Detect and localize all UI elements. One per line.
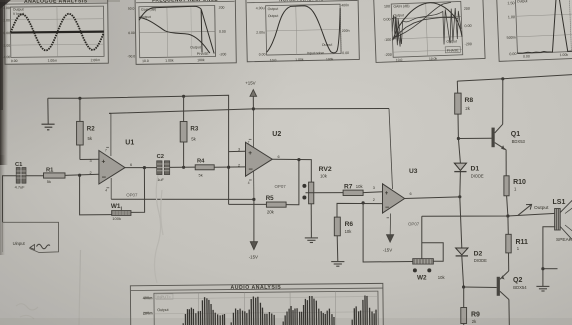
node U1 inverting input junction — [78, 174, 81, 177]
svg-text:0.00: 0.00 — [383, 17, 390, 21]
svg-text:Input noise: Input noise — [307, 51, 324, 55]
svg-text:10.0: 10.0 — [142, 59, 149, 63]
svg-text:Q1: Q1 — [511, 131, 520, 138]
wire C1 to R1 — [26, 175, 44, 177]
svg-text:C1: C1 — [15, 162, 23, 168]
svg-text:10k: 10k — [356, 184, 364, 189]
potentiometer W2 — [413, 259, 446, 282]
svg-text:100k: 100k — [326, 57, 334, 61]
wire U3 pin2 node — [337, 203, 383, 217]
plot ANALOGUE ANALYSIS (scope) — [2, 0, 108, 64]
svg-text:R3: R3 — [190, 126, 198, 133]
node Q1 base junction — [457, 137, 460, 140]
resistor R3 — [180, 96, 199, 167]
node U1 output junction — [143, 166, 146, 169]
svg-text:3: 3 — [90, 159, 92, 163]
svg-text:−: − — [385, 205, 389, 212]
node feedback junction at U2 pin2 — [227, 166, 230, 169]
node Q2 base junction — [462, 285, 465, 288]
svg-text:-15V: -15V — [383, 247, 392, 252]
wire -15V rail U1 U2 — [111, 198, 254, 200]
resistor R8 — [455, 81, 474, 138]
wire C2 to R4 with R3 node — [170, 166, 196, 168]
node U2 output junction — [297, 158, 300, 161]
wire W2 wiper loop — [422, 216, 443, 261]
svg-text:10.0: 10.0 — [396, 58, 403, 62]
svg-text:10k: 10k — [438, 275, 446, 280]
wire R7 to U3 pin3 — [363, 191, 382, 194]
svg-text:1.00k: 1.00k — [559, 53, 568, 57]
svg-text:+: + — [248, 150, 252, 157]
svg-text:0.00: 0.00 — [219, 30, 226, 34]
op-amp U3 — [373, 168, 420, 235]
svg-text:U3: U3 — [409, 168, 418, 175]
plot GAIN/PHASE — [374, 0, 485, 63]
wire top right rail — [457, 75, 572, 82]
svg-text:2.00u: 2.00u — [256, 30, 265, 34]
svg-text:R9: R9 — [471, 311, 480, 318]
wire R5 right to U2 output node — [286, 160, 299, 205]
svg-text:R2: R2 — [87, 126, 95, 133]
svg-text:0.00: 0.00 — [11, 59, 18, 63]
svg-text:1.00: 1.00 — [508, 15, 515, 19]
svg-text:PHASE: PHASE — [197, 52, 210, 56]
svg-text:5k: 5k — [47, 179, 51, 184]
plot FFT spectrum — [497, 0, 572, 61]
svg-text:5k: 5k — [199, 172, 203, 177]
bottom vignette — [0, 318, 572, 325]
svg-text:4.00u: 4.00u — [256, 6, 265, 10]
capacitor C2 — [157, 154, 170, 182]
svg-text:200: 200 — [219, 6, 225, 10]
node R3 top junction — [182, 95, 185, 98]
resistor R6 — [334, 217, 353, 262]
wire C1 left to source — [3, 176, 17, 223]
potentiometer RV2 — [302, 166, 332, 204]
power -15V arrow U2 — [249, 199, 258, 259]
wire RV2 bottom to ground — [310, 204, 312, 238]
svg-text:2: 2 — [238, 163, 240, 167]
svg-text:500m: 500m — [507, 36, 516, 40]
transistor Q1 — [458, 79, 525, 176]
svg-text:200: 200 — [464, 7, 470, 11]
wire R1 to U1 pin2 — [65, 174, 99, 175]
faint scribbles bottom left — [16, 304, 38, 319]
svg-text:C2: C2 — [157, 154, 164, 160]
svg-text:BDX53: BDX53 — [512, 139, 526, 144]
svg-text:10.0k: 10.0k — [429, 57, 438, 61]
svg-text:3: 3 — [373, 186, 375, 190]
svg-text:Output: Output — [517, 0, 528, 3]
svg-text:6: 6 — [278, 155, 280, 159]
ground under R6 — [331, 262, 344, 267]
wire +15V feed rail — [109, 109, 393, 190]
svg-text:W2: W2 — [417, 274, 427, 281]
diode D1 — [454, 163, 484, 179]
svg-text:4: 4 — [248, 181, 250, 185]
svg-text:W1: W1 — [111, 203, 121, 210]
faint crease bottom left — [79, 250, 81, 325]
top edge slight dark — [0, 0, 120, 2]
svg-text:R4: R4 — [197, 158, 205, 164]
resistor R1 — [44, 168, 66, 184]
svg-text:R8: R8 — [465, 97, 474, 104]
diode D2 — [456, 248, 488, 263]
svg-text:6: 6 — [130, 163, 132, 167]
svg-text:OP07: OP07 — [408, 221, 420, 226]
svg-text:-200: -200 — [219, 52, 226, 56]
svg-text:U1: U1 — [125, 139, 134, 146]
svg-text:100: 100 — [384, 4, 390, 8]
svg-text:4.7uF: 4.7uF — [15, 185, 26, 190]
svg-text:4: 4 — [105, 189, 107, 193]
svg-text:+15V: +15V — [245, 81, 255, 86]
wire U1 output to C2 — [125, 167, 157, 169]
svg-text:RV2: RV2 — [319, 166, 332, 173]
svg-text:400m: 400m — [143, 296, 153, 300]
svg-text:PHASE: PHASE — [447, 48, 460, 52]
svg-text:+: + — [102, 158, 106, 165]
svg-text:1uF: 1uF — [157, 177, 164, 182]
svg-text:1.00k: 1.00k — [165, 59, 174, 63]
svg-text:10.0: 10.0 — [270, 58, 277, 62]
svg-text:AUDIO ANALYSIS: AUDIO ANALYSIS — [230, 284, 281, 290]
wire ground rail top — [48, 95, 229, 204]
op-amp U2 — [238, 109, 286, 199]
svg-text:100k: 100k — [197, 58, 205, 62]
svg-text:Output: Output — [393, 13, 404, 17]
svg-text:7: 7 — [105, 148, 107, 152]
wire RV2 wiper to R7 — [306, 192, 344, 194]
svg-text:R1: R1 — [46, 168, 54, 174]
wire D1 D2 chain vertical — [458, 139, 463, 288]
svg-text:-15V: -15V — [249, 255, 258, 260]
voltage source Uinput box — [3, 222, 59, 252]
node R2 top junction — [78, 97, 81, 100]
capacitor C1 — [15, 162, 26, 190]
resistor R2 — [77, 98, 96, 159]
node -15V junction U2 — [252, 198, 255, 201]
svg-text:0.00: 0.00 — [464, 24, 471, 28]
svg-text:-100: -100 — [384, 38, 392, 42]
svg-text:200m: 200m — [143, 311, 153, 315]
svg-text:Output: Output — [534, 205, 549, 211]
svg-text:−: − — [249, 165, 254, 174]
node U3 pin2 junction — [362, 201, 365, 204]
svg-text:R5: R5 — [266, 195, 274, 202]
svg-text:Output: Output — [446, 39, 457, 43]
svg-text:OP07: OP07 — [126, 193, 138, 198]
svg-text:Q2: Q2 — [513, 277, 522, 284]
plot NOISE ANALYSIS — [246, 0, 359, 63]
svg-text:0.00: 0.00 — [259, 52, 266, 56]
node +15V junction — [252, 107, 255, 110]
wire U3 output — [405, 197, 460, 199]
svg-text:Output: Output — [190, 45, 201, 49]
svg-text:R11: R11 — [516, 239, 529, 246]
wire U2 output to RV2 — [272, 159, 311, 182]
svg-text:6: 6 — [410, 192, 412, 196]
wire speaker to ground — [543, 227, 558, 287]
resistor R10 — [504, 176, 526, 216]
svg-text:-200: -200 — [384, 53, 392, 57]
ground under RV2 — [305, 238, 318, 243]
svg-text:Output: Output — [157, 308, 169, 312]
potentiometer W1 — [111, 203, 131, 221]
wire R2 to U1 pin3 — [80, 158, 99, 160]
svg-text:D1: D1 — [471, 165, 480, 172]
svg-text:BDX54: BDX54 — [513, 285, 527, 290]
photo left edge shadow — [0, 0, 8, 165]
svg-text:3: 3 — [238, 148, 240, 152]
svg-text:+: + — [385, 191, 389, 197]
svg-text:Uinput: Uinput — [13, 241, 26, 246]
power +15V arrow — [245, 81, 256, 109]
output probe arrow — [518, 204, 549, 215]
svg-text:2: 2 — [373, 198, 375, 202]
svg-text:200n: 200n — [342, 29, 350, 33]
wire output node line — [422, 213, 555, 216]
speaker LS1 — [553, 199, 572, 243]
svg-text:100k: 100k — [112, 216, 121, 221]
svg-text:1.50: 1.50 — [507, 1, 514, 5]
svg-text:0.00: 0.00 — [509, 52, 516, 56]
wire feedback R5 left — [229, 203, 267, 205]
resistor R11 — [506, 216, 528, 253]
svg-text:400n: 400n — [341, 3, 349, 7]
wire U3 feedback down to W2 — [363, 203, 413, 262]
svg-text:50.0: 50.0 — [128, 7, 135, 11]
ground under speaker — [536, 286, 549, 291]
ground main left — [42, 98, 55, 130]
svg-text:DIODE: DIODE — [474, 258, 487, 263]
svg-text:R10: R10 — [513, 179, 526, 186]
node speaker ground junction — [541, 267, 544, 270]
svg-text:10k: 10k — [320, 173, 328, 178]
svg-text:20k: 20k — [267, 210, 275, 215]
svg-text:7: 7 — [248, 140, 250, 144]
wire R4 to U2 pin2 — [214, 166, 245, 168]
svg-text:LS1: LS1 — [553, 199, 566, 206]
resistor R4 — [195, 158, 214, 177]
node output junction R10 R11 — [506, 214, 509, 217]
node Q1 collector junction — [501, 77, 504, 80]
svg-text:GAIN (dB): GAIN (dB) — [393, 4, 409, 9]
resistor R9 — [461, 287, 480, 325]
svg-text:Output: Output — [268, 7, 279, 11]
node U3 output junction — [458, 195, 461, 198]
svg-text:0.00: 0.00 — [128, 31, 135, 35]
svg-text:DIODE: DIODE — [471, 174, 484, 179]
svg-text:−: − — [102, 173, 107, 182]
plot FREQUENCY RESPONSE — [126, 0, 236, 65]
svg-text:0.00: 0.00 — [523, 54, 530, 58]
wire feedback left down to W1 — [80, 175, 112, 215]
svg-text:SPEAK: SPEAK — [556, 237, 572, 243]
svg-text:R7: R7 — [344, 183, 353, 190]
svg-text:U2: U2 — [272, 131, 281, 138]
node C2-R3-R4 junction — [182, 166, 185, 169]
transistor Q2 — [464, 253, 528, 325]
svg-text:0.00: 0.00 — [342, 51, 349, 55]
svg-text:Output: Output — [268, 14, 279, 18]
op-amp U1 — [90, 114, 138, 200]
svg-text:D2: D2 — [474, 251, 483, 258]
svg-text:2.00m: 2.00m — [91, 58, 101, 62]
svg-text:-50.0: -50.0 — [127, 54, 135, 58]
svg-text:INPUT=: INPUT= — [157, 295, 171, 299]
svg-text:OP07: OP07 — [275, 184, 287, 189]
wire U2 pin3 ground — [229, 150, 246, 152]
wire W1 right up to U1 output — [131, 168, 145, 213]
svg-text:10k: 10k — [345, 229, 353, 234]
resistor R5 — [266, 195, 286, 215]
svg-text:1.00m: 1.00m — [48, 59, 58, 63]
svg-text:2: 2 — [90, 171, 92, 175]
AUDIO ANALYSIS box — [130, 283, 383, 325]
svg-text:R6: R6 — [345, 221, 354, 228]
svg-text:-200: -200 — [464, 42, 472, 46]
resistor R7 — [343, 183, 363, 195]
svg-text:1.00k: 1.00k — [295, 58, 304, 62]
power -15V arrow U3 — [383, 235, 394, 253]
